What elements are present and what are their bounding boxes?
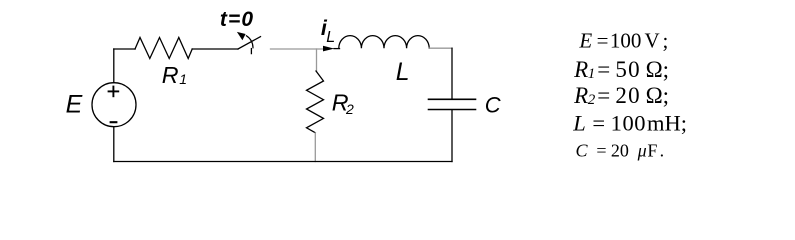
resistor R2 — [307, 71, 324, 133]
svg-text:L: L — [326, 29, 335, 46]
svg-text:L: L — [396, 59, 410, 86]
wire top-left horizontal — [114, 48, 135, 50]
wire arrow tip to inductor — [334, 48, 340, 50]
bottom rail wire — [114, 161, 452, 163]
switch fixed contact tick — [250, 49, 252, 54]
wire capacitor bottom to bottom rail — [451, 110, 453, 161]
svg-text:1: 1 — [179, 71, 187, 87]
wire R1 to switch — [192, 48, 238, 50]
source plus sign — [108, 86, 120, 98]
svg-text:E=100V;: E=100V; — [578, 28, 668, 52]
svg-text:C: C — [485, 92, 501, 117]
capacitor C top plate — [429, 98, 476, 100]
wire inductor to right branch (gray) — [429, 47, 452, 49]
wire right vertical to capacitor top — [451, 48, 453, 98]
wire left vertical top (source to top rail) — [113, 49, 115, 83]
svg-text:R: R — [162, 62, 179, 88]
source minus sign — [110, 121, 118, 123]
wire R2 to bottom rail (gray) — [314, 133, 316, 162]
resistor R1 — [135, 38, 192, 59]
svg-text:R1=50Ω;: R1=50Ω; — [573, 57, 669, 82]
switch motion arc — [246, 36, 253, 48]
svg-text:E: E — [66, 91, 83, 119]
capacitor C bottom plate — [429, 109, 476, 111]
svg-text:t=0: t=0 — [220, 8, 254, 31]
switch arrowhead — [237, 32, 246, 40]
svg-text:R2=20Ω;: R2=20Ω; — [573, 83, 669, 108]
current arrow iL — [323, 46, 334, 52]
switch blade t=0 — [238, 37, 261, 49]
svg-text:2: 2 — [345, 101, 354, 117]
inductor L — [339, 36, 429, 49]
wire node down to R2 (gray) — [316, 49, 318, 71]
wire switch to node (gray) — [271, 48, 323, 50]
wire source bottom to bottom rail — [113, 127, 115, 162]
voltage source E circle — [92, 83, 136, 127]
